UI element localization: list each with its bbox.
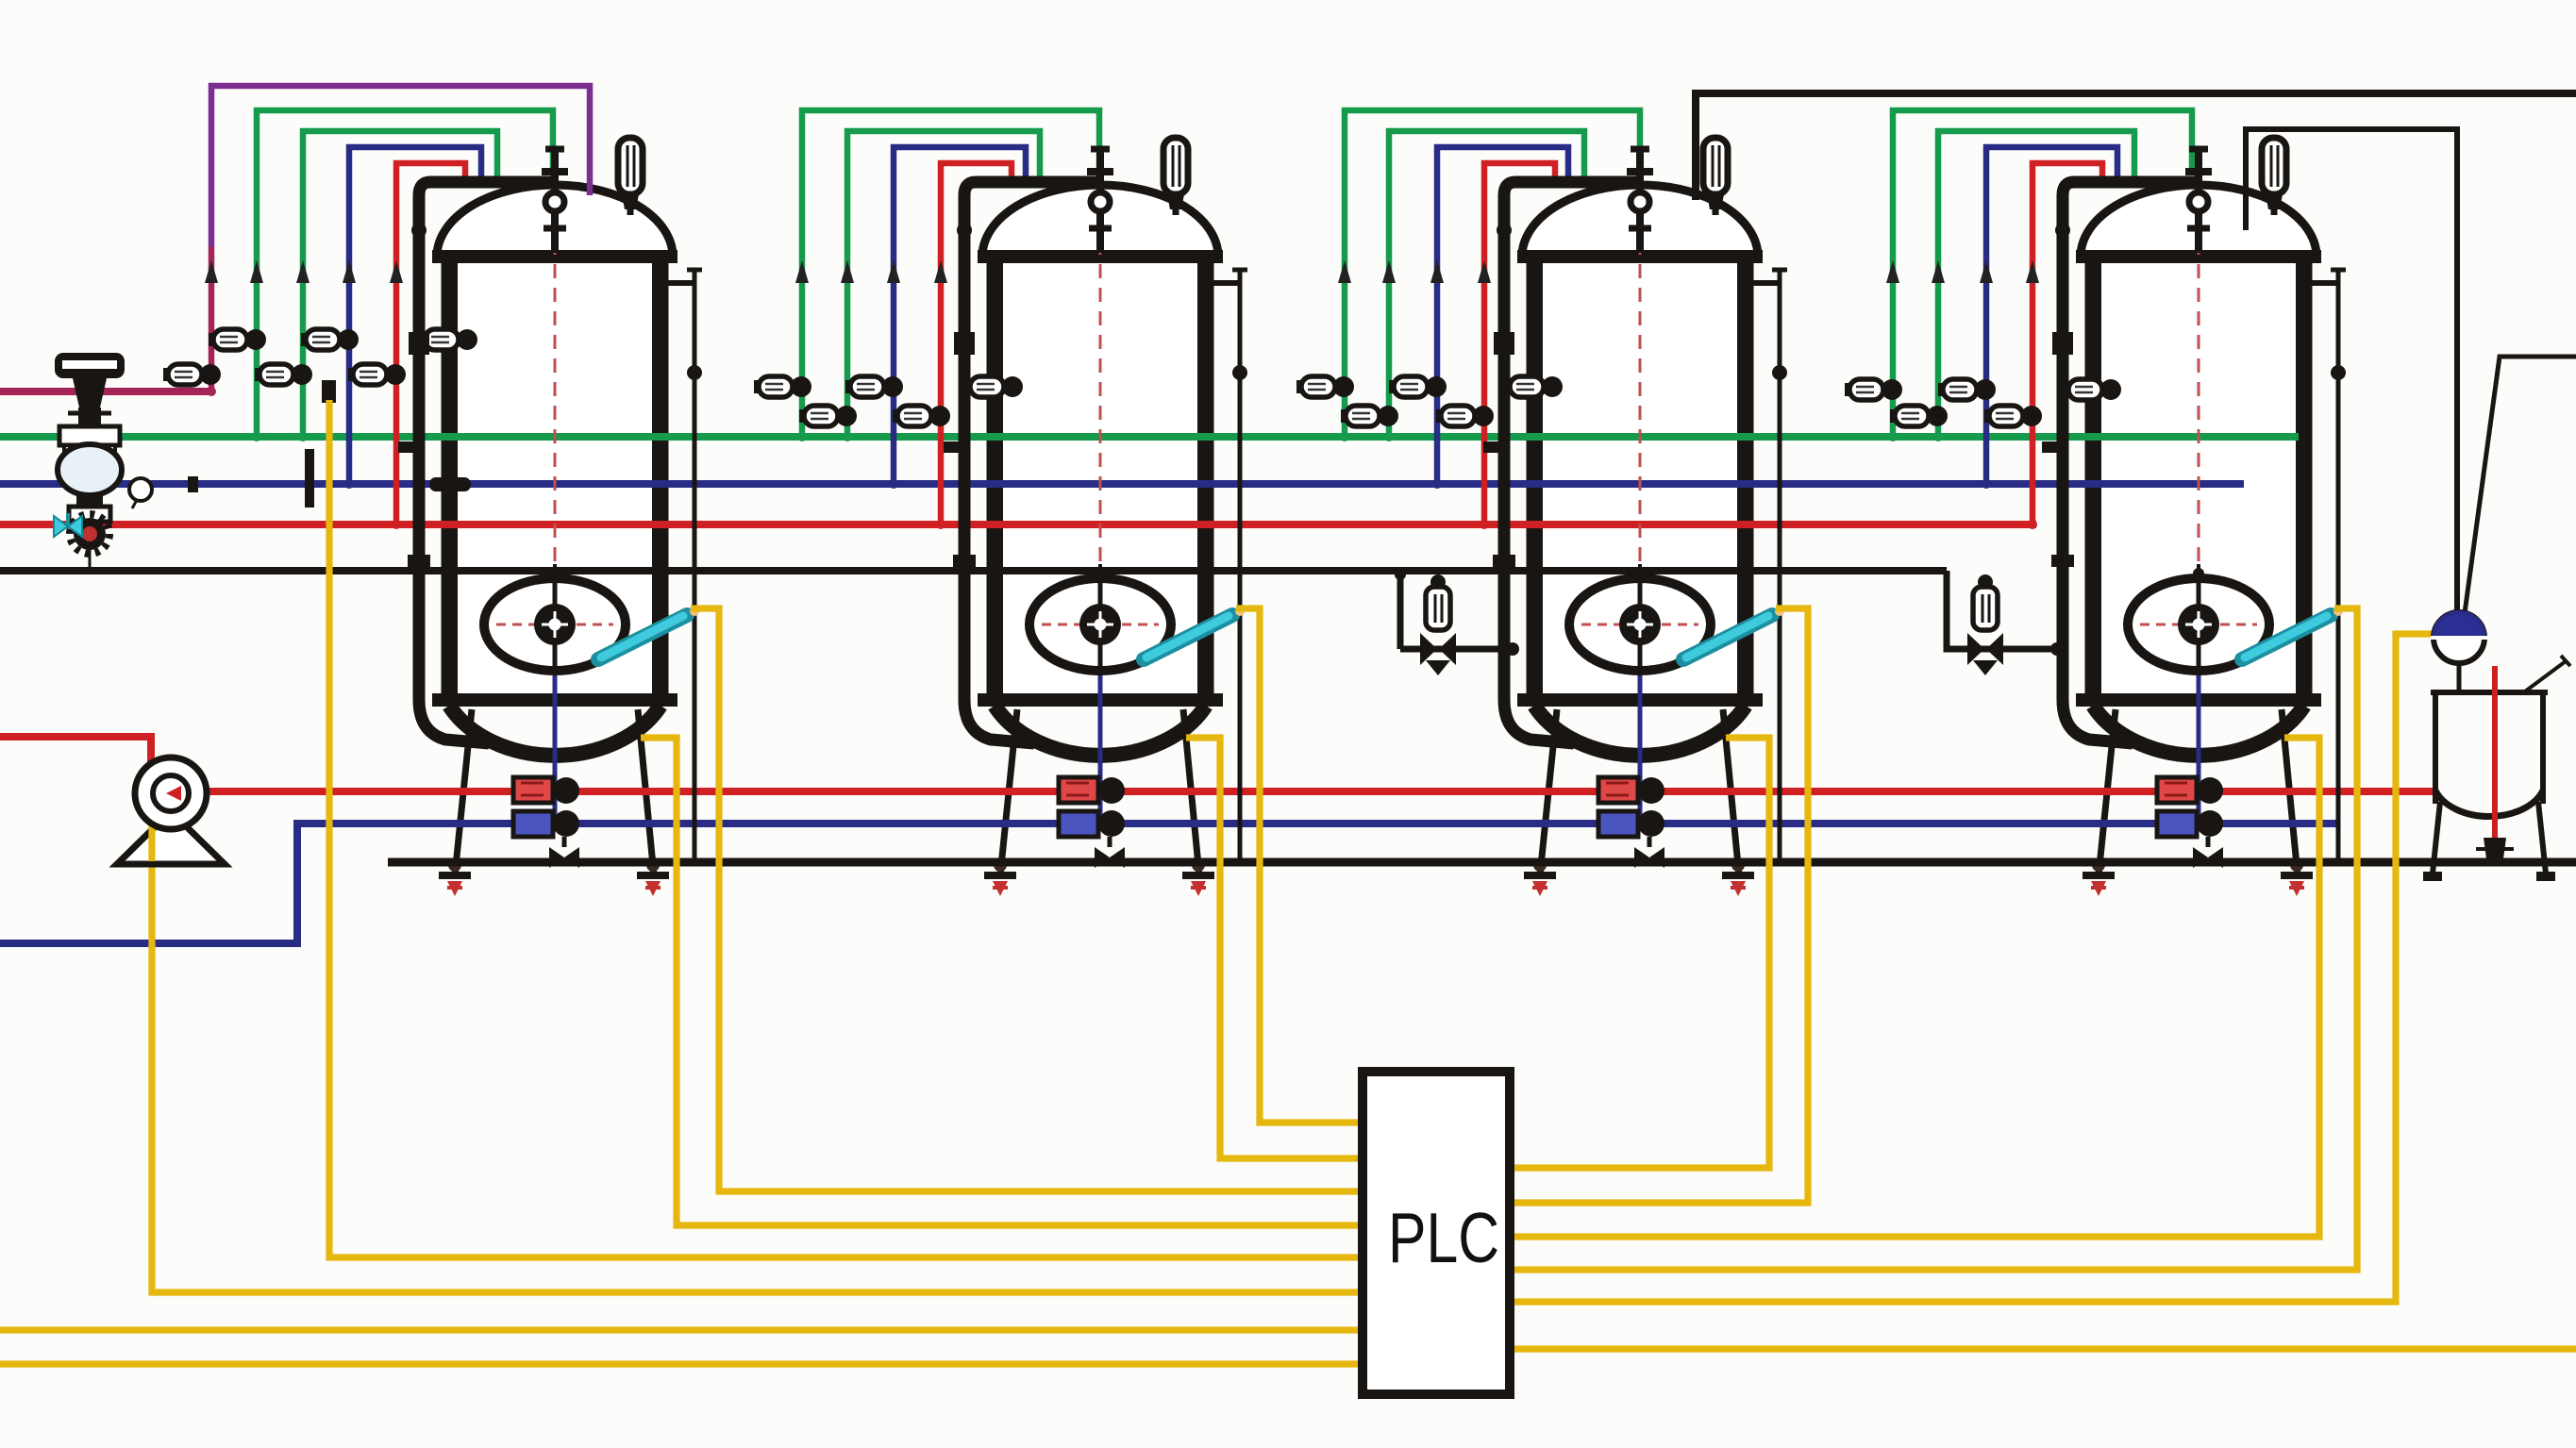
racking arm handle (tank 1) [593, 607, 699, 662]
wire green inner arch (tank 3) [1382, 131, 1584, 437]
solenoid valve on tank inlet (tank 2) [965, 376, 1023, 397]
bottom valve cluster (tank 4) [2157, 777, 2223, 868]
wire blue arch (tank 3) [1430, 147, 1568, 484]
solenoid valve on red drop (tank 2) [893, 406, 950, 426]
signal wire tank1 handle [691, 608, 1363, 1191]
wire lower blue glycol return [0, 824, 2340, 943]
wire purple arch (tank 1) [205, 86, 590, 391]
tank T1 left riser pipe [398, 182, 551, 743]
tank T2 right sample pipe [1212, 270, 1247, 862]
tank T3 right sample pipe [1751, 270, 1787, 862]
wire blue arch (tank 4) [1980, 147, 2117, 484]
tank T3 legs [1524, 709, 1754, 896]
signal wire tank4 handle [1510, 608, 2357, 1270]
solenoid valve on blue drop (tank 2) [845, 376, 903, 397]
pressure relief valve (tank 3) [1703, 138, 1728, 215]
junction dot blue/bus (tank 2) [889, 479, 898, 489]
wire red arch (tank 3) [1478, 163, 1555, 524]
racking arm handle (tank 4) [2236, 607, 2343, 662]
junction dot green outer/bus (tank 3) [1340, 432, 1349, 441]
solenoid valve on tank inlet (tank 1) [420, 329, 477, 350]
tank T2 top fitting [1087, 149, 1113, 253]
junction dot blue/bus (tank 1) [344, 479, 354, 489]
signal wire tank4 bottom [1510, 738, 2319, 1237]
junction dot purple/bus (tank 1) [207, 387, 216, 396]
wire green inner arch (tank 2) [841, 131, 1040, 437]
junction dot blue/bus (tank 3) [1432, 479, 1442, 489]
pressure relief valve (tank 2) [1163, 138, 1188, 215]
main CIP valve assembly V1 [55, 353, 125, 571]
centrifugal pump P1 [117, 757, 225, 864]
wire top black vent header [1696, 93, 2576, 200]
junction dot red/bus (tank 3) [1480, 520, 1489, 529]
wire black drain bus [0, 567, 1947, 574]
tank T4 legs [2083, 709, 2313, 896]
solenoid valve on red drop (tank 1) [348, 364, 406, 385]
carbonation control valve [2431, 612, 2487, 694]
tank T4 centre dip tube [2193, 193, 2204, 826]
wire lower black floor bus [388, 858, 2576, 867]
pressure relief valve (tank 4) [2262, 138, 2286, 215]
solenoid valve on green outer drop (tank 2) [754, 376, 811, 397]
tank T2 legs [984, 709, 1214, 896]
svg-text:PLC: PLC [1388, 1198, 1499, 1277]
bottom valve cluster (tank 3) [1598, 777, 1664, 868]
inline valve on blue bus [429, 477, 471, 491]
solenoid valve on green inner drop (tank 3) [1341, 406, 1398, 426]
wire green outer arch (tank 2) [795, 110, 1099, 437]
vertical stub fitting [305, 449, 314, 508]
wire green outer arch (tank 1) [250, 110, 553, 437]
solenoid valve on green outer drop (tank 4) [1845, 379, 1902, 400]
solenoid valve on green inner drop (tank 2) [799, 406, 857, 426]
tank T4 top fitting [2185, 149, 2212, 253]
manway (tank 3) [1569, 578, 1711, 671]
solenoid valve on green inner drop (tank 4) [1890, 406, 1948, 426]
manway (tank 4) [2128, 578, 2269, 671]
tank T1 legs [439, 709, 669, 896]
signal wire carbonation valve [1510, 634, 2434, 1302]
junction dot red/bus (tank 1) [392, 520, 401, 529]
fermenter tank T2 shell [978, 185, 1223, 756]
tank T1 right sample pipe [666, 270, 702, 862]
junction dot green inner/bus (tank 1) [298, 432, 308, 441]
junction dot green outer/bus (tank 2) [797, 432, 807, 441]
wire green gas bus [0, 433, 2299, 441]
solenoid valve on green inner drop (tank 1) [255, 364, 312, 385]
signal wire tank3 bottom [1510, 738, 1769, 1168]
signal wire right feed [1510, 1345, 2576, 1352]
tank T2 centre dip tube [1095, 193, 1106, 826]
signal wire pump motor [152, 774, 1363, 1292]
fermenter tank T1 shell [432, 185, 677, 756]
signal wire purple-bus sensor [329, 400, 1363, 1257]
wire green inner arch (tank 4) [1932, 131, 2134, 437]
solenoid valve on green outer drop (tank 1) [209, 329, 266, 350]
sight glass on blue bus [129, 478, 152, 508]
wire red hot water bus [0, 521, 2036, 528]
solenoid valve on purple drop (tank 1) [163, 364, 221, 385]
junction dot green inner/bus (tank 3) [1384, 432, 1394, 441]
junction dot green inner/bus (tank 4) [1933, 432, 1943, 441]
PLC controller box [1363, 1072, 1510, 1394]
signal wire tank3 handle [1510, 608, 1808, 1203]
signal wire tank2 handle [1236, 608, 1363, 1123]
signal wire tank1 bottom [641, 738, 1363, 1225]
junction dot red/bus (tank 2) [936, 520, 945, 529]
tank T4 left riser pipe [2042, 182, 2195, 743]
tank T3 top fitting [1627, 149, 1653, 253]
tank T3 centre dip tube [1634, 193, 1646, 826]
racking arm handle (tank 3) [1678, 607, 1784, 662]
solenoid valve on blue drop (tank 4) [1938, 379, 1996, 400]
wire blue glycol supply bus [0, 480, 2244, 488]
wire red arch (tank 2) [934, 163, 1012, 524]
junction dot blue/bus (tank 4) [1982, 479, 1991, 489]
bottom valve cluster (tank 1) [513, 777, 579, 868]
tank T1 top fitting [542, 149, 568, 253]
solenoid valve on blue drop (tank 1) [301, 329, 359, 350]
signal wire tank2 bottom [1186, 738, 1363, 1158]
solenoid valve on tank inlet (tank 3) [1505, 376, 1563, 397]
solenoid valve on green outer drop (tank 3) [1296, 376, 1354, 397]
fitting on purple bus with signal tap [322, 380, 336, 403]
wire red arch (tank 4) [2026, 163, 2102, 524]
wire right slant feed [2465, 357, 2576, 613]
wire blue arch (tank 2) [887, 147, 1026, 484]
sample/drain valve assembly between tanks 3-4 [1947, 571, 2064, 675]
pressure relief valve (tank 1) [618, 138, 643, 215]
wire red arch (tank 1) [390, 163, 465, 524]
wire tank4 vent frame [2246, 129, 2457, 611]
wire green inner arch (tank 1) [296, 131, 497, 437]
junction dot green outer/bus (tank 1) [252, 432, 261, 441]
bottom valve cluster (tank 2) [1059, 777, 1125, 868]
solenoid valve on blue drop (tank 3) [1389, 376, 1447, 397]
tank T2 left riser pipe [944, 182, 1096, 743]
sample/drain valve assembly between tanks 2-3 [1395, 569, 1519, 675]
butterfly valve (red bus inlet) [54, 513, 82, 537]
racking arm handle (tank 2) [1138, 607, 1245, 662]
manway (tank 2) [1029, 578, 1171, 671]
solenoid valve on red drop (tank 4) [1984, 406, 2042, 426]
yeast brink tank [2423, 656, 2570, 881]
junction dot green inner/bus (tank 2) [843, 432, 852, 441]
junction dot red/bus (tank 4) [2028, 520, 2037, 529]
fermenter tank T4 shell [2076, 185, 2321, 756]
tank T3 left riser pipe [1483, 182, 1636, 743]
fermenter tank T3 shell [1517, 185, 1763, 756]
wire lower red product line from pump [0, 737, 2434, 791]
wire green outer arch (tank 4) [1886, 110, 2192, 437]
signal wire left feed A [0, 1326, 1363, 1333]
wire blue arch (tank 1) [343, 147, 481, 484]
junction dot green outer/bus (tank 4) [1888, 432, 1898, 441]
fitting on blue bus [188, 476, 198, 492]
tank T1 centre dip tube [549, 193, 560, 826]
wire green outer arch (tank 3) [1338, 110, 1640, 437]
solenoid valve on red drop (tank 3) [1436, 406, 1494, 426]
wire purple CIP return bus [0, 388, 213, 395]
manway (tank 1) [484, 578, 626, 671]
solenoid valve on tank inlet (tank 4) [2064, 379, 2121, 400]
tank T4 right sample pipe [2310, 270, 2346, 862]
signal wire left feed B [0, 1360, 1363, 1367]
